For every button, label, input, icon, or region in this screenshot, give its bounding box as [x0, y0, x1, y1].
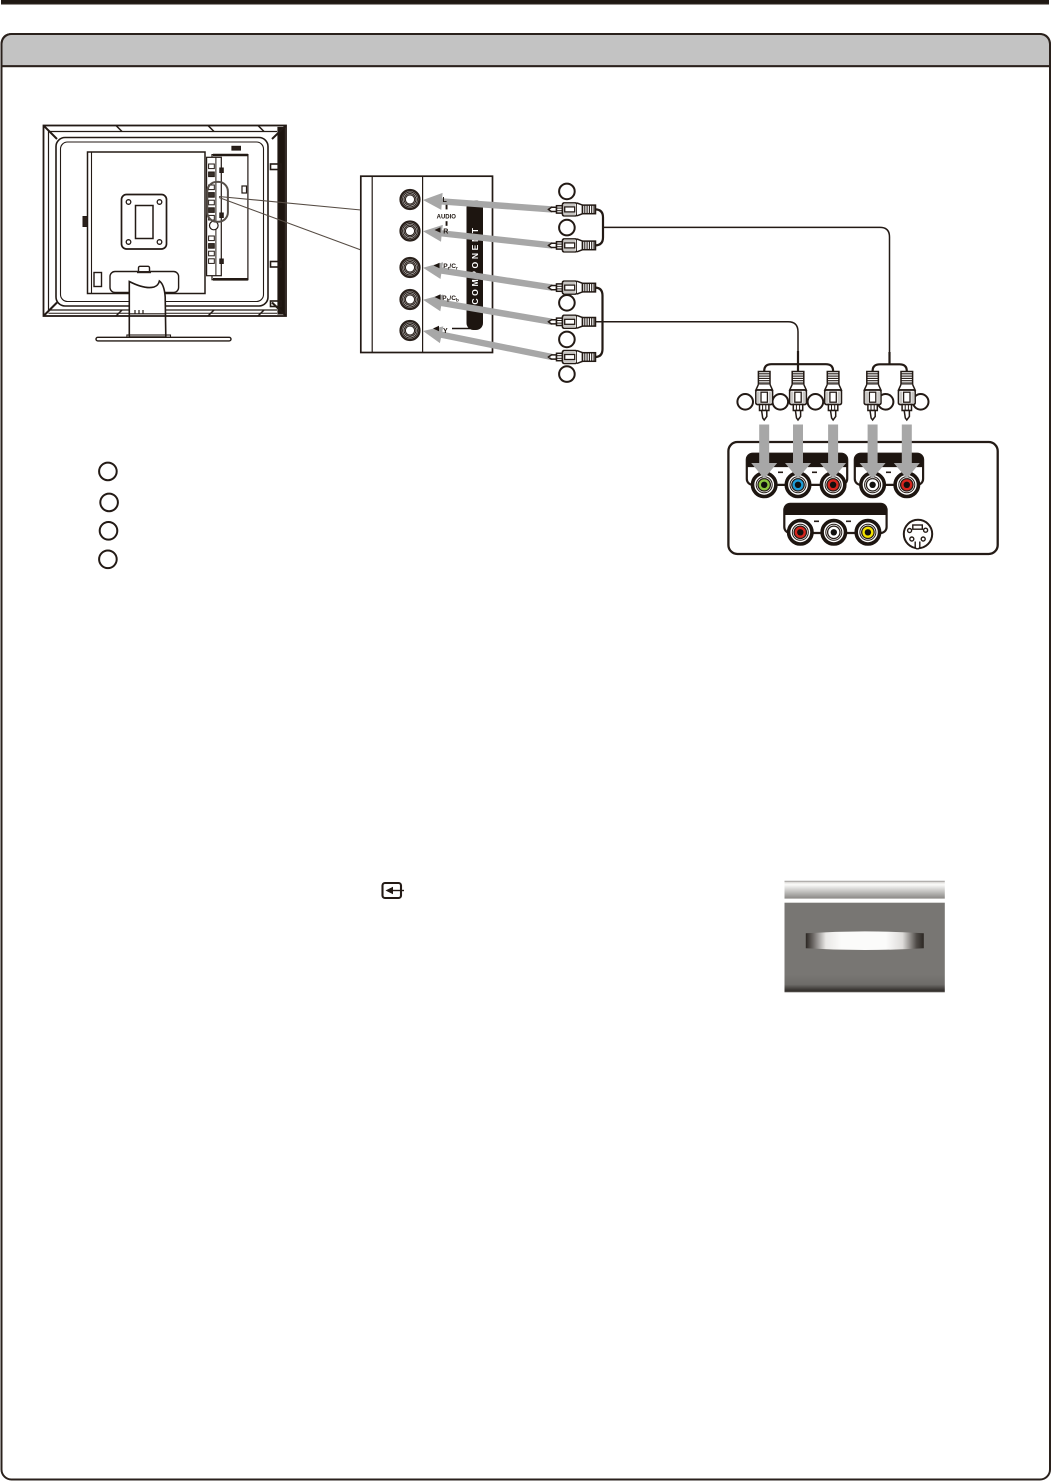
svg-text:Pr/Cr: Pr/Cr	[443, 263, 458, 270]
svg-text:L: L	[443, 197, 448, 204]
svg-text:R: R	[443, 228, 448, 235]
svg-text:AUDIO: AUDIO	[437, 214, 457, 220]
svg-text:Y: Y	[443, 328, 448, 335]
